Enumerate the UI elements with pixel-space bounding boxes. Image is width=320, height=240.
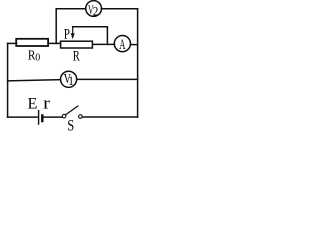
svg-text:2: 2 <box>93 4 99 19</box>
rheostat slider arrow shaft <box>72 27 74 34</box>
rheostat slider arrowhead <box>71 33 75 39</box>
svg-text:P: P <box>64 27 70 43</box>
svg-text:0: 0 <box>35 52 40 63</box>
svg-text:A: A <box>119 37 125 53</box>
wire V1 left to left rail <box>8 80 61 81</box>
wire top-left segment <box>56 8 86 10</box>
voltmeter V2 circle <box>86 1 102 17</box>
wire vertical from top wire down to main node <box>55 9 57 44</box>
svg-text:S: S <box>67 118 74 135</box>
resistor R0 box <box>16 39 48 46</box>
switch right contact circle <box>79 115 83 119</box>
wire main left to R0 <box>8 42 17 44</box>
svg-text:1: 1 <box>68 73 74 88</box>
wire switch to right rail <box>82 116 137 118</box>
wire R0 to node <box>48 42 60 44</box>
wire ammeter to right rail <box>130 44 137 46</box>
wire top-right segment <box>101 8 137 10</box>
svg-text:R: R <box>73 48 80 64</box>
rheostat R box <box>61 41 93 48</box>
battery short plate <box>41 116 44 122</box>
wire V1 right to right rail <box>77 78 138 80</box>
wire rheostat to ammeter <box>93 43 115 45</box>
rheostat slider wire bracket <box>73 27 108 45</box>
svg-text:r: r <box>43 94 50 113</box>
svg-text:E: E <box>28 95 38 113</box>
battery long plate <box>38 111 40 124</box>
voltmeter V1 circle <box>61 71 77 87</box>
wire left rail <box>7 43 9 117</box>
ammeter A circle <box>114 36 130 52</box>
switch lever <box>66 106 78 115</box>
wire bottom left to battery <box>8 116 38 118</box>
switch pivot contact circle <box>62 114 66 118</box>
wire battery to switch <box>43 116 62 118</box>
wire right rail <box>137 9 139 117</box>
